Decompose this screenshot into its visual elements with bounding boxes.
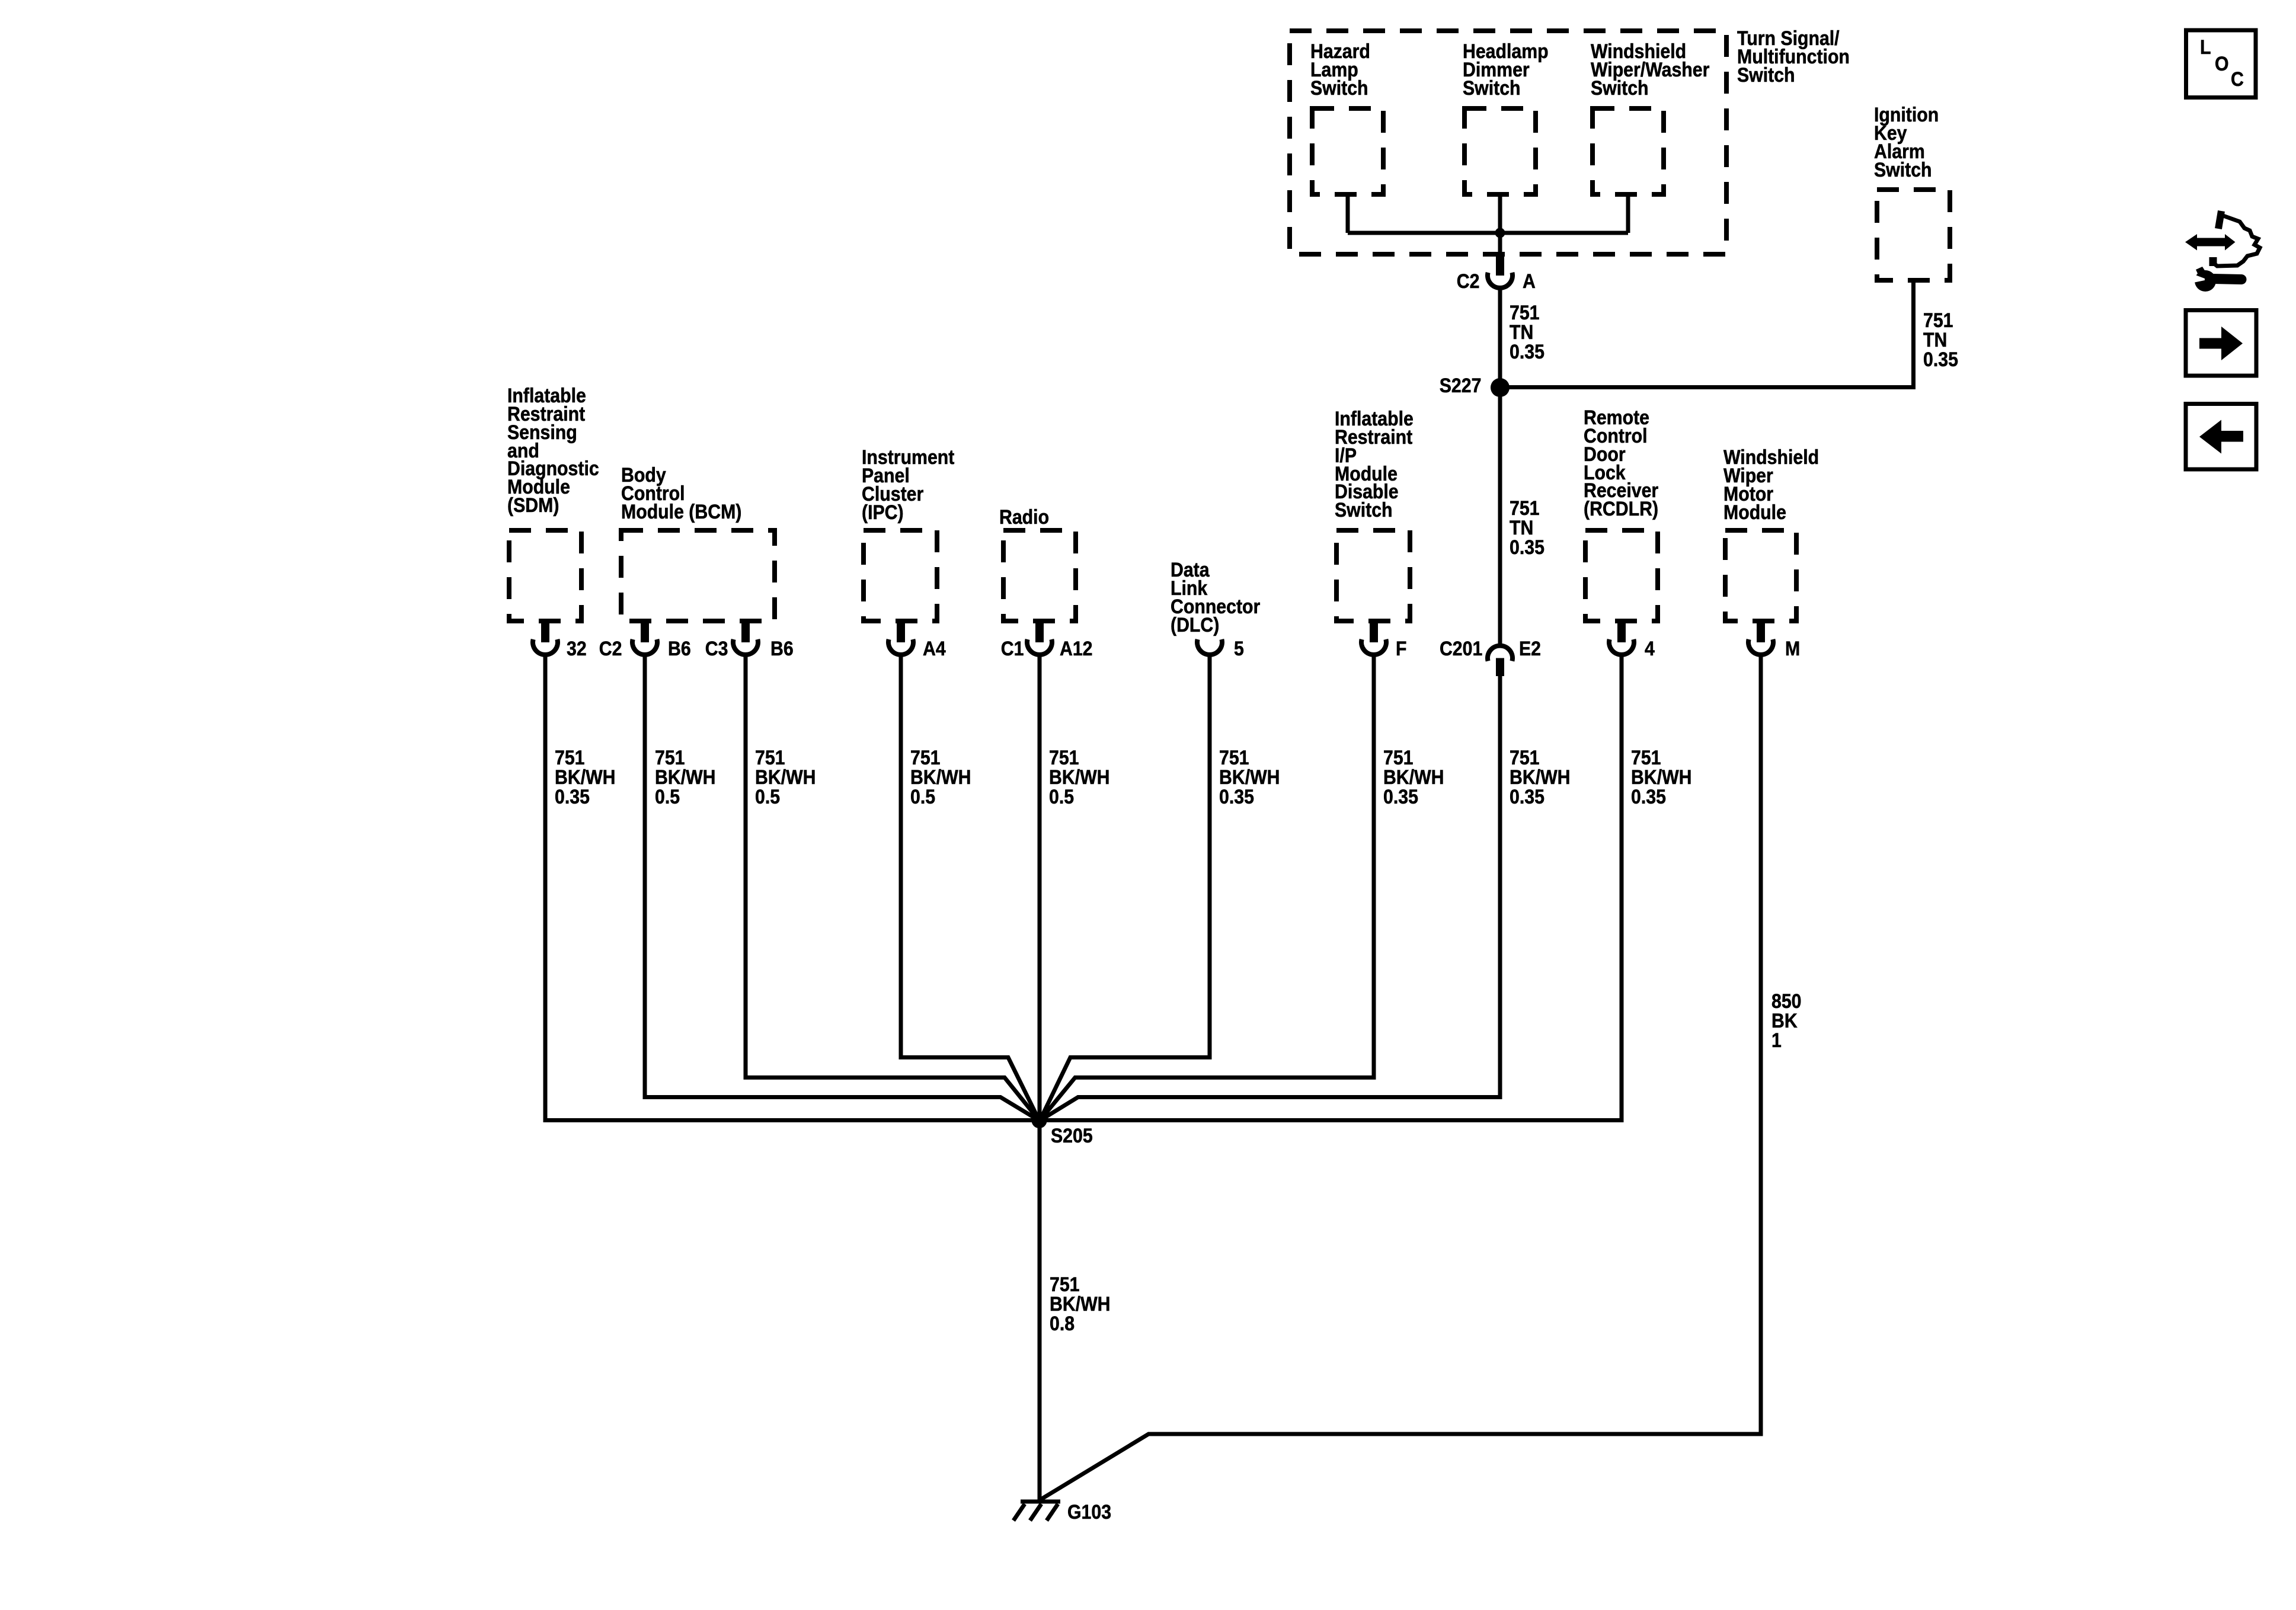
legend letter C xyxy=(2231,71,2244,89)
wire 751 BK/WH 0.5 IPC to S205 xyxy=(901,655,1040,1121)
wire label 751 BK/WH 0.5 Radio xyxy=(1049,748,1110,806)
connector label C201 xyxy=(1440,640,1482,658)
pin label F Disable Switch xyxy=(1396,640,1406,658)
wire 751 BK/WH 0.35 RCDLR to S205 xyxy=(1040,655,1622,1121)
label SDM xyxy=(507,387,599,515)
wire Hazard Lamp Switch to bus xyxy=(1346,194,1350,233)
connector cup of Data Link Connector (DLC) xyxy=(1197,639,1222,655)
legend letter O xyxy=(2215,55,2229,73)
wire label 751 TN 0.35 S227 to C201 xyxy=(1510,499,1544,557)
internal bus wire xyxy=(1348,231,1628,235)
diagnostic icon wrench jaw notch xyxy=(2191,273,2205,283)
wire S227 to Ignition Key Alarm Switch xyxy=(1500,280,1914,388)
connector pin of Inflatable Restraint Sensing and Diagnostic Module (SDM) xyxy=(541,621,549,642)
connector pin of Windshield Wiper Motor Module xyxy=(1757,621,1765,642)
connector pin of Body Control Module (BCM) xyxy=(741,621,750,642)
label Ignition Key Alarm Switch xyxy=(1874,106,1939,179)
diagnostic icon left stub xyxy=(2209,257,2217,266)
pin label M Wiper Motor xyxy=(1785,640,1800,658)
Windshield Wiper/Washer Switch box xyxy=(1593,108,1664,194)
connector pin of Instrument Panel Cluster (IPC) xyxy=(897,621,905,642)
pin label C3 BCM xyxy=(705,640,728,658)
wire 751 BK/WH 0.5 Radio through S205 to G103 xyxy=(1038,655,1042,1500)
Ignition Key Alarm Switch box xyxy=(1877,190,1950,280)
wire 751 TN 0.35 C2 to S227 xyxy=(1498,288,1502,391)
label DLC xyxy=(1171,561,1260,634)
wire label 751 BK/WH 0.35 RCDLR xyxy=(1631,748,1692,806)
connector label C2 top xyxy=(1456,273,1479,291)
splice label S227 xyxy=(1439,377,1481,395)
wire 751 BK/WH 0.5 BCM C2 to S205 xyxy=(645,655,1040,1121)
wire 850 BK 1 from Wiper Motor M to ground xyxy=(1040,655,1761,1500)
wire 751 BK/WH 0.5 BCM C3 to S205 xyxy=(746,655,1040,1121)
wire label 751 BK/WH 0.5 IPC xyxy=(910,748,971,806)
splice label S205 xyxy=(1051,1127,1093,1145)
pin label C2 BCM xyxy=(599,640,622,658)
label Windshield Wiper Motor Module xyxy=(1723,449,1819,521)
junction dot inside multifunction switch xyxy=(1495,228,1505,238)
connector pin of Radio xyxy=(1035,621,1044,642)
ground G103 hatch 2 xyxy=(1030,1504,1041,1521)
wire label 850 BK 1 xyxy=(1771,992,1801,1050)
wire label 751 BK/WH 0.5 BCM C2 xyxy=(655,748,716,806)
connector cup of Remote Control Door Lock Receiver (RCDLR) xyxy=(1609,639,1634,655)
pin label 32 SDM xyxy=(567,640,587,658)
connector pin of Body Control Module (BCM) xyxy=(641,621,649,642)
Windshield Wiper Motor Module box xyxy=(1725,530,1796,621)
connector cup of Windshield Wiper Motor Module xyxy=(1748,639,1773,655)
wire label 751 BK/WH 0.35 SDM xyxy=(555,748,616,806)
connector pin of Remote Control Door Lock Receiver (RCDLR) xyxy=(1617,621,1626,642)
wire label 751 BK/WH 0.35 C201 xyxy=(1510,748,1571,806)
pin label B6 BCM C2 xyxy=(668,640,691,658)
Body Control Module (BCM) box xyxy=(621,530,775,621)
wire bus to connector C2 pin A xyxy=(1498,233,1502,256)
splice S205 xyxy=(1032,1113,1047,1128)
connector cup of Radio xyxy=(1027,639,1052,655)
diagnostic icon wrench jaw tip xyxy=(2196,267,2207,276)
back arrow xyxy=(2199,420,2243,454)
ground G103 bar xyxy=(1021,1500,1060,1504)
splice S227 xyxy=(1491,378,1510,397)
forward arrow xyxy=(2199,327,2243,360)
label Inflatable Restraint I/P Module Disable Switch xyxy=(1335,410,1414,520)
label Hazard Lamp Switch xyxy=(1310,43,1370,97)
wire 751 BK/WH 0.35 C201 to S205 xyxy=(1040,676,1501,1121)
label BCM xyxy=(621,466,741,521)
diagnostic icon double arrow xyxy=(2185,234,2236,251)
label Radio xyxy=(999,508,1049,527)
wire label 751 TN 0.35 at C2 xyxy=(1510,303,1544,361)
forward arrow box xyxy=(2186,311,2256,376)
Inflatable Restraint Sensing and Diagnostic Module (SDM) box xyxy=(509,530,581,621)
connector pin of Inflatable Restraint I/P Module Disable Switch xyxy=(1370,621,1378,642)
label Windshield Wiper/Washer Switch xyxy=(1591,43,1709,97)
Headlamp Dimmer Switch box xyxy=(1464,108,1536,194)
wire label 751 BK/WH 0.8 xyxy=(1050,1275,1111,1333)
Remote Control Door Lock Receiver (RCDLR) box xyxy=(1585,530,1658,621)
diagnostic icon wrench head xyxy=(2195,270,2216,292)
wire label 751 BK/WH 0.35 Disable Switch xyxy=(1383,748,1444,806)
connector C2 cup xyxy=(1488,273,1512,288)
wire Headlamp Dimmer Switch to bus xyxy=(1498,194,1502,235)
pin label A top xyxy=(1523,273,1536,291)
connector cup of Inflatable Restraint Sensing and Diagnostic Module (SDM) xyxy=(533,639,558,655)
ground G103 hatch 3 xyxy=(1047,1504,1058,1521)
ground G103 hatch 1 xyxy=(1013,1504,1025,1521)
LOC legend box xyxy=(2186,30,2256,98)
Inflatable Restraint I/P Module Disable Switch box xyxy=(1336,530,1410,621)
diagnostic icon outline xyxy=(2211,216,2260,266)
pin label A4 IPC xyxy=(923,640,946,658)
pin label A12 Radio xyxy=(1060,640,1093,658)
Instrument Panel Cluster (IPC) box xyxy=(864,530,937,621)
label RCDLR xyxy=(1584,409,1658,518)
label IPC xyxy=(862,449,954,521)
wire label 751 TN 0.35 at ignition switch xyxy=(1923,311,1958,369)
diagnostic icon top stub xyxy=(2218,211,2221,229)
wire 751 TN 0.35 S227 to C201 xyxy=(1498,388,1502,645)
ground label G103 xyxy=(1067,1503,1111,1522)
connector cup of Inflatable Restraint I/P Module Disable Switch xyxy=(1361,639,1386,655)
wire 751 BK/WH 0.35 DLC to S205 xyxy=(1040,655,1210,1121)
wire label 751 BK/WH 0.35 DLC xyxy=(1219,748,1280,806)
pin label C1 Radio xyxy=(1000,640,1024,658)
connector cup of Instrument Panel Cluster (IPC) xyxy=(888,639,913,655)
wire label 751 BK/WH 0.5 BCM C3 xyxy=(755,748,816,806)
connector cup of Body Control Module (BCM) xyxy=(733,639,758,655)
wire 751 BK/WH 0.35 Disable Switch to S205 xyxy=(1040,655,1374,1121)
Radio box xyxy=(1003,530,1076,621)
legend letter L xyxy=(2200,39,2211,57)
diagnostic icon wrench handle xyxy=(2213,279,2241,280)
connector C2 pin A xyxy=(1496,254,1504,276)
Turn Signal/Multifunction Switch outline xyxy=(1290,31,1726,254)
pin label B6 BCM C3 xyxy=(770,640,794,658)
label Turn Signal/Multifunction Switch xyxy=(1737,30,1850,84)
connector cup of Body Control Module (BCM) xyxy=(632,639,657,655)
wire 751 BK/WH 0.35 SDM to S205 xyxy=(545,655,1039,1121)
wire Windshield Wiper/Washer Switch to bus xyxy=(1626,194,1630,233)
label Headlamp Dimmer Switch xyxy=(1463,43,1549,97)
back arrow box xyxy=(2186,404,2256,470)
connector C201 pin E2 xyxy=(1496,658,1504,677)
pin label E2 C201 xyxy=(1519,640,1541,658)
pin label 5 DLC xyxy=(1234,640,1244,658)
connector C201 arc xyxy=(1488,646,1512,661)
pin label 4 RCDLR xyxy=(1645,640,1655,658)
Hazard Lamp Switch box xyxy=(1312,108,1383,194)
